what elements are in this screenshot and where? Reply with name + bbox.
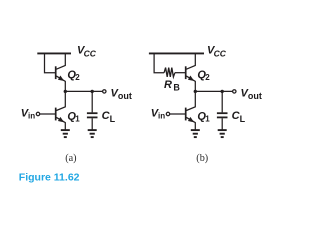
wire output (a)	[65, 90, 102, 92]
ground CL (b)	[218, 130, 227, 137]
wire VCC to RB	[154, 53, 164, 72]
svg-text:in: in	[28, 112, 35, 121]
Q2 label (a)	[67, 69, 80, 82]
svg-text:CC: CC	[84, 48, 97, 58]
VCC label (a)	[77, 45, 97, 59]
svg-text:(a): (a)	[65, 153, 76, 164]
terminal Vout (a)	[103, 90, 106, 93]
svg-text:R: R	[164, 79, 172, 91]
wire node to CL (b)	[221, 91, 223, 112]
ground Q1 (a)	[61, 130, 70, 137]
transistor Q2 (b)	[186, 53, 196, 91]
svg-text:out: out	[118, 91, 132, 101]
wire CL to ground (b)	[221, 118, 223, 129]
capacitor CL (b)	[217, 113, 228, 117]
node CL junction (b)	[221, 90, 224, 93]
svg-text:1: 1	[205, 115, 210, 124]
svg-text:2: 2	[205, 73, 210, 82]
wire output (b)	[195, 90, 232, 92]
CL label (a)	[102, 110, 116, 124]
terminal Vin (b)	[166, 112, 169, 115]
svg-text:in: in	[158, 112, 165, 121]
node output junction (a)	[64, 90, 67, 93]
svg-text:CC: CC	[214, 48, 227, 58]
svg-text:2: 2	[75, 73, 80, 82]
svg-text:Figure 11.62: Figure 11.62	[19, 172, 80, 184]
Q1 label (b)	[197, 111, 210, 124]
capacitor CL (a)	[87, 113, 98, 117]
ground CL (a)	[88, 130, 97, 137]
wire Vin to Q1 base (b)	[170, 113, 186, 115]
Vout label (b)	[241, 87, 262, 101]
Vout label (a)	[111, 87, 132, 101]
wire node to CL (a)	[91, 91, 93, 112]
svg-text:(b): (b)	[196, 153, 208, 164]
wire CL to ground (a)	[91, 118, 93, 129]
terminal Vout (b)	[233, 90, 236, 93]
node output junction (b)	[194, 90, 197, 93]
svg-text:1: 1	[75, 115, 80, 124]
RB label	[164, 79, 180, 93]
node CL junction (a)	[91, 90, 94, 93]
svg-text:L: L	[240, 114, 246, 124]
transistor Q2 (a)	[56, 53, 66, 91]
Vin label (a)	[21, 107, 35, 120]
svg-text:L: L	[110, 114, 116, 124]
transistor Q1 (b)	[186, 91, 196, 129]
Q1 label (a)	[67, 111, 80, 124]
wire RB to Q2 base (b)	[175, 72, 186, 74]
CL label (b)	[232, 110, 246, 124]
ground Q1 (b)	[191, 130, 200, 137]
terminal Vin (a)	[36, 112, 39, 115]
VCC rail (a)	[37, 52, 71, 54]
VCC rail (b)	[149, 52, 204, 54]
Vin label (b)	[151, 107, 165, 120]
Q2 label (b)	[197, 69, 210, 82]
VCC label (b)	[207, 45, 227, 59]
wire VCC to Q2 base (a)	[45, 53, 56, 72]
resistor RB	[164, 68, 175, 77]
wire Vin to Q1 base (a)	[40, 113, 56, 115]
transistor Q1 (a)	[56, 91, 66, 129]
svg-text:B: B	[173, 83, 180, 93]
svg-text:out: out	[248, 91, 262, 101]
